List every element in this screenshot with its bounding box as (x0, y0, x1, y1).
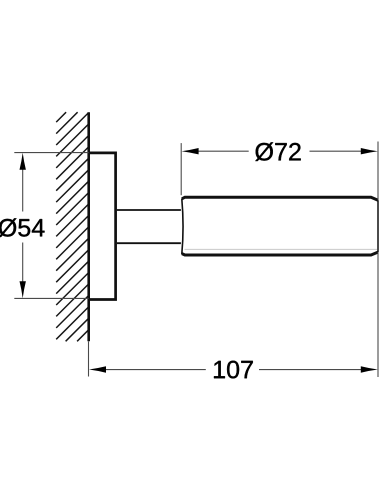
dimension 107: value label (214, 361, 253, 379)
dimension Ø54: top extension line (14, 152, 88, 154)
dimension Ø72: left extension line (180, 143, 182, 195)
dimension Ø54: bottom arrow (20, 281, 26, 298)
holder cylinder right edge (377, 200, 379, 252)
dimension Ø54: top arrow (20, 153, 26, 170)
dimension 107: left arrow (89, 366, 106, 372)
wall face line (87, 112, 90, 341)
holder cylinder top edge (182, 197, 378, 200)
stem lower line (117, 242, 181, 244)
wall plate (escutcheon, side view) (89, 153, 116, 300)
dimension Ø54: bottom extension line (14, 297, 88, 299)
dimension Ø54: dimension line lower segment (22, 243, 24, 284)
dimension 107: dimension line right segment (259, 369, 362, 371)
dimension Ø72: left arrow (182, 148, 199, 154)
holder cylinder bottom edge (182, 252, 378, 255)
wall hatching (56, 112, 88, 341)
dimension 107: left extension line (88, 341, 90, 376)
dimension 107: right arrow (361, 366, 378, 372)
dimension 107: dimension line left segment (106, 369, 206, 371)
dimension Ø54: dimension line upper segment (22, 168, 24, 212)
dimension Ø54: value label (0, 218, 44, 237)
dimension 107: right extension line (377, 252, 379, 377)
dimension Ø72: right extension line (377, 142, 379, 201)
dimension Ø72: right arrow (361, 148, 378, 154)
holder cylinder left end curve (182, 199, 183, 255)
dimension Ø72: dimension line right segment (310, 150, 363, 152)
holder cylinder highlight line (185, 248, 378, 250)
dimension Ø72: value label (255, 142, 300, 161)
dimension Ø72: dimension line left segment (197, 150, 249, 152)
stem upper line (117, 209, 181, 211)
